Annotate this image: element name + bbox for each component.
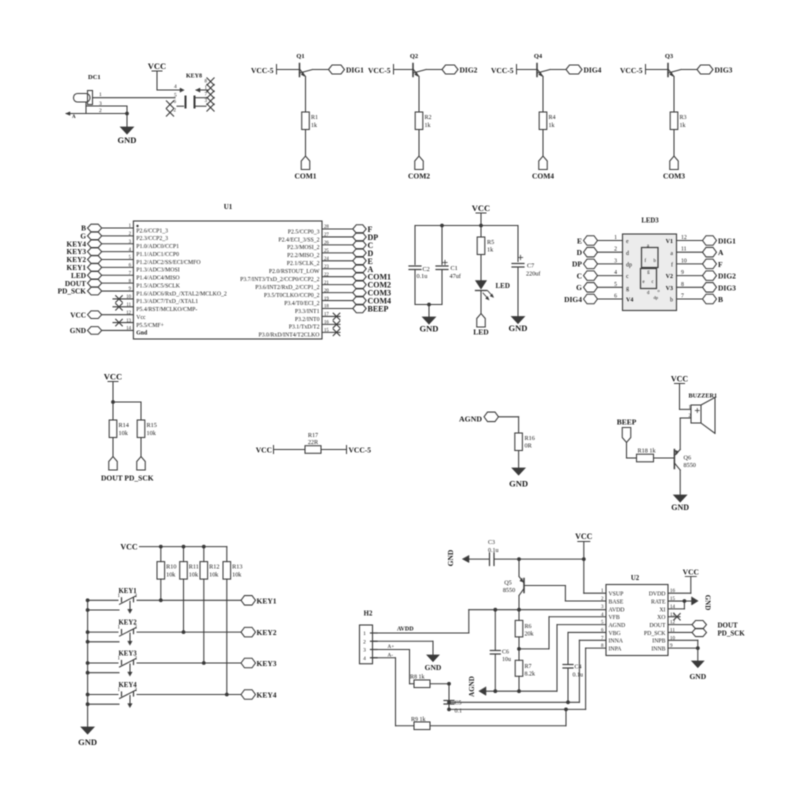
svg-text:P3.0/RxD/INT4/T2CLKO: P3.0/RxD/INT4/T2CLKO	[258, 333, 319, 339]
svg-text:P2.2/MISO_2: P2.2/MISO_2	[287, 253, 319, 259]
svg-text:0.1u: 0.1u	[417, 273, 428, 280]
svg-text:GND: GND	[446, 549, 455, 566]
svg-text:c: c	[652, 280, 654, 285]
svg-text:GND: GND	[509, 479, 528, 489]
svg-text:P2.1/SCLK_2: P2.1/SCLK_2	[287, 261, 320, 267]
svg-text:C1: C1	[451, 265, 458, 272]
svg-text:R9 1k: R9 1k	[411, 717, 426, 723]
svg-text:P3.5/T0CLKO/CCP0_2: P3.5/T0CLKO/CCP0_2	[264, 293, 320, 299]
svg-text:GND: GND	[420, 324, 439, 334]
svg-text:E: E	[577, 236, 582, 245]
svg-text:9: 9	[681, 270, 684, 276]
svg-text:P3.7/INT3/TxD_2/CCP0/CCP2_2: P3.7/INT3/TxD_2/CCP0/CCP2_2	[240, 277, 320, 283]
svg-text:AGND: AGND	[468, 676, 476, 697]
svg-text:7: 7	[205, 93, 208, 98]
svg-text:C: C	[577, 271, 582, 280]
svg-text:10k: 10k	[189, 572, 199, 579]
svg-text:R7: R7	[525, 664, 532, 670]
svg-text:P1.3/ADC3/MOSI: P1.3/ADC3/MOSI	[136, 268, 179, 274]
svg-text:3: 3	[363, 648, 366, 654]
svg-text:DC1: DC1	[88, 74, 101, 81]
svg-text:Q3: Q3	[665, 53, 674, 60]
svg-text:P2.6/CCP1_3: P2.6/CCP1_3	[136, 228, 168, 234]
svg-text:4: 4	[363, 656, 366, 662]
svg-text:B: B	[718, 295, 723, 304]
svg-text:C4: C4	[575, 665, 582, 671]
svg-text:4: 4	[614, 270, 617, 276]
svg-text:P1.3/ADC7/TxD_/XTAL1: P1.3/ADC7/TxD_/XTAL1	[136, 299, 198, 305]
svg-text:Vcc: Vcc	[136, 315, 146, 321]
svg-text:P1.4/ADC4/MISO: P1.4/ADC4/MISO	[136, 276, 179, 282]
svg-text:8550: 8550	[503, 587, 515, 594]
svg-text:GND: GND	[509, 323, 528, 333]
svg-text:INNB: INNB	[651, 647, 665, 653]
svg-text:C2: C2	[423, 266, 430, 273]
svg-text:LED: LED	[496, 282, 510, 290]
svg-text:5: 5	[614, 282, 617, 288]
svg-text:VCC: VCC	[256, 446, 272, 455]
svg-text:P1.5/ADC5/SCLK: P1.5/ADC5/SCLK	[136, 283, 180, 289]
svg-text:10k: 10k	[232, 572, 242, 579]
svg-text:U2: U2	[631, 575, 640, 582]
svg-text:D: D	[577, 248, 583, 257]
svg-text:VSUP: VSUP	[609, 592, 624, 598]
svg-text:12: 12	[681, 235, 687, 241]
svg-text:AGND: AGND	[459, 415, 482, 424]
svg-text:VCC-5: VCC-5	[349, 446, 372, 455]
svg-text:DP: DP	[572, 260, 582, 269]
svg-text:e: e	[626, 239, 629, 245]
svg-text:Gnd: Gnd	[136, 331, 148, 337]
svg-text:RATE: RATE	[651, 599, 666, 605]
svg-text:VCC: VCC	[148, 61, 166, 71]
svg-text:R11: R11	[189, 564, 199, 571]
svg-text:P2.0/RSTOUT_LOW: P2.0/RSTOUT_LOW	[269, 269, 320, 275]
svg-text:V4: V4	[626, 298, 633, 304]
svg-text:VCC-5: VCC-5	[491, 66, 514, 75]
svg-text:8550: 8550	[684, 462, 696, 469]
svg-text:1k: 1k	[311, 123, 317, 129]
svg-text:Q1: Q1	[296, 53, 304, 60]
svg-text:AGND: AGND	[609, 623, 626, 629]
svg-text:Q6: Q6	[684, 455, 692, 462]
svg-text:COM1: COM1	[294, 172, 316, 181]
svg-text:47uf: 47uf	[450, 273, 462, 280]
svg-text:DIG4: DIG4	[564, 295, 582, 304]
svg-text:dp: dp	[654, 295, 659, 300]
svg-text:KEY3: KEY3	[257, 659, 277, 668]
svg-text:10k: 10k	[166, 572, 176, 579]
svg-text:INPA: INPA	[609, 647, 623, 653]
svg-text:1k: 1k	[680, 123, 686, 129]
svg-text:INPB: INPB	[652, 639, 665, 645]
svg-text:VCC-5: VCC-5	[620, 66, 643, 75]
svg-text:220uf: 220uf	[526, 271, 541, 278]
svg-text:VCC-5: VCC-5	[368, 66, 391, 75]
svg-text:VCC: VCC	[683, 568, 699, 577]
svg-text:R2: R2	[425, 115, 432, 121]
svg-text:H2: H2	[364, 611, 373, 618]
svg-text:8.2k: 8.2k	[525, 672, 536, 678]
svg-text:VCC: VCC	[70, 310, 86, 319]
svg-text:V2: V2	[666, 274, 673, 280]
svg-text:1k: 1k	[549, 123, 555, 129]
svg-text:10: 10	[681, 258, 687, 264]
svg-text:P1.6/ADC6/RxD_/XTAL2/MCLKO_2: P1.6/ADC6/RxD_/XTAL2/MCLKO_2	[136, 291, 227, 297]
svg-text:P5.5/CMF+: P5.5/CMF+	[136, 323, 164, 329]
svg-text:R13: R13	[232, 564, 242, 571]
svg-text:GND: GND	[118, 135, 137, 145]
svg-text:LED3: LED3	[641, 218, 659, 225]
svg-text:DOUT: DOUT	[649, 623, 666, 629]
svg-text:AVDD: AVDD	[609, 607, 625, 613]
svg-text:P2.3/CCP2_3: P2.3/CCP2_3	[136, 236, 168, 242]
svg-text:GND: GND	[704, 595, 712, 611]
svg-text:BEEP: BEEP	[368, 305, 389, 314]
svg-text:XI: XI	[659, 607, 665, 613]
svg-text:dp: dp	[626, 263, 632, 269]
svg-text:P3.6/INT2/RxD_2/CCP1_2: P3.6/INT2/RxD_2/CCP1_2	[255, 285, 319, 291]
svg-text:P3.3/INT1: P3.3/INT1	[295, 309, 320, 315]
svg-text:VCC-5: VCC-5	[251, 66, 274, 75]
svg-text:10k: 10k	[209, 572, 219, 579]
svg-text:DIG2: DIG2	[718, 272, 736, 281]
svg-text:VCC: VCC	[104, 372, 122, 382]
svg-text:0.1u: 0.1u	[573, 673, 584, 679]
svg-text:7: 7	[681, 294, 684, 300]
svg-text:GND: GND	[78, 737, 97, 747]
svg-text:DIG3: DIG3	[718, 283, 736, 292]
svg-text:BASE: BASE	[609, 599, 624, 605]
svg-text:AVDD: AVDD	[397, 627, 414, 633]
svg-text:PD_SCK: PD_SCK	[58, 287, 87, 296]
svg-text:R3: R3	[680, 115, 687, 121]
svg-text:P2.3/MOSI_2: P2.3/MOSI_2	[287, 245, 319, 251]
svg-text:INNA: INNA	[609, 639, 624, 645]
svg-text:3: 3	[601, 605, 604, 610]
svg-text:R10: R10	[166, 564, 176, 571]
svg-text:3: 3	[614, 258, 617, 264]
svg-text:VCC: VCC	[120, 543, 138, 552]
svg-text:U1: U1	[224, 203, 233, 211]
svg-text:C5: C5	[455, 701, 462, 707]
svg-text:LED: LED	[473, 328, 489, 337]
svg-text:C6: C6	[502, 650, 509, 656]
svg-text:R16: R16	[525, 435, 535, 442]
svg-text:0.1u: 0.1u	[488, 548, 499, 554]
svg-text:DOUT: DOUT	[718, 622, 739, 630]
svg-text:R6: R6	[525, 624, 532, 630]
svg-text:e: e	[643, 280, 645, 285]
svg-text:KEY8: KEY8	[186, 74, 202, 80]
svg-text:GND: GND	[425, 663, 442, 672]
svg-text:DIG1: DIG1	[346, 66, 364, 75]
svg-text:A: A	[718, 248, 724, 257]
svg-text:1k: 1k	[487, 247, 494, 254]
svg-text:G: G	[576, 283, 582, 292]
svg-text:8: 8	[205, 80, 208, 85]
svg-text:C3: C3	[488, 540, 495, 546]
svg-text:GND: GND	[671, 503, 689, 512]
svg-text:KEY2: KEY2	[257, 628, 277, 637]
svg-text:VBG: VBG	[609, 631, 621, 637]
svg-text:DOUT PD_SCK: DOUT PD_SCK	[101, 474, 154, 483]
svg-text:2: 2	[363, 639, 366, 645]
svg-text:R17: R17	[308, 432, 318, 439]
svg-text:A+: A+	[388, 644, 395, 650]
svg-text:2: 2	[174, 109, 177, 114]
svg-text:KEY1: KEY1	[257, 596, 277, 605]
svg-text:a: a	[670, 251, 673, 257]
svg-text:PD_SCK: PD_SCK	[718, 629, 746, 637]
svg-text:BUZZER1: BUZZER1	[689, 393, 718, 400]
svg-text:R8 1k: R8 1k	[410, 675, 425, 681]
svg-text:P2.5/CCP0_3: P2.5/CCP0_3	[288, 229, 320, 235]
svg-text:P5.4/RST/MCLKO/CMP-: P5.4/RST/MCLKO/CMP-	[136, 307, 197, 313]
svg-text:XO: XO	[657, 615, 665, 621]
svg-text:COM2: COM2	[408, 172, 430, 181]
svg-text:10k: 10k	[147, 430, 157, 437]
svg-text:PD_SCK: PD_SCK	[644, 631, 666, 637]
svg-text:COM3: COM3	[663, 172, 685, 181]
svg-text:DIG1: DIG1	[718, 237, 736, 246]
svg-text:6: 6	[174, 100, 177, 105]
svg-text:DIG3: DIG3	[715, 66, 733, 75]
svg-text:VCC: VCC	[472, 203, 490, 213]
svg-text:g: g	[626, 286, 629, 292]
svg-text:6: 6	[614, 294, 617, 300]
svg-text:1: 1	[614, 235, 617, 241]
svg-text:2: 2	[614, 247, 617, 253]
svg-text:5: 5	[174, 92, 177, 98]
svg-text:A-: A-	[388, 652, 394, 658]
svg-text:COM4: COM4	[532, 172, 554, 181]
svg-text:VCC: VCC	[671, 375, 689, 384]
svg-text:VFB: VFB	[609, 615, 620, 621]
svg-text:b: b	[670, 298, 673, 304]
svg-text:DIG2: DIG2	[460, 66, 478, 75]
svg-text:V3: V3	[666, 286, 673, 292]
svg-text:R14: R14	[119, 422, 129, 429]
svg-text:P2.4/ECI_3/SS_2: P2.4/ECI_3/SS_2	[278, 237, 319, 243]
svg-text:1: 1	[363, 631, 366, 637]
svg-text:A: A	[72, 115, 76, 120]
svg-text:GND: GND	[689, 672, 706, 681]
svg-text:11: 11	[681, 247, 687, 253]
svg-text:P3.2/INT0: P3.2/INT0	[295, 317, 320, 323]
svg-text:V1: V1	[666, 239, 673, 245]
svg-text:C7: C7	[527, 263, 534, 270]
svg-text:P1.0/ADC0/CCP1: P1.0/ADC0/CCP1	[136, 244, 179, 250]
svg-text:P1.2/ADC2/SS/ECI/CMFO: P1.2/ADC2/SS/ECI/CMFO	[136, 260, 200, 266]
svg-text:R15: R15	[147, 422, 157, 429]
svg-text:KEY4: KEY4	[257, 691, 277, 700]
svg-text:0R: 0R	[525, 443, 533, 450]
svg-text:1k: 1k	[425, 123, 431, 129]
svg-text:R4: R4	[549, 115, 556, 121]
svg-text:DVDD: DVDD	[649, 592, 666, 598]
svg-text:Q5: Q5	[504, 580, 512, 587]
svg-text:R5: R5	[487, 239, 494, 246]
svg-text:BEEP: BEEP	[617, 418, 637, 427]
svg-text:GND: GND	[70, 326, 86, 335]
svg-text:DIG4: DIG4	[584, 66, 602, 75]
svg-text:d: d	[626, 251, 629, 257]
svg-text:P1.1/ADC1/CCP0: P1.1/ADC1/CCP0	[136, 252, 179, 258]
svg-text:R1: R1	[311, 115, 318, 121]
svg-text:20k: 20k	[525, 632, 534, 638]
svg-text:R18 1k: R18 1k	[638, 448, 657, 455]
svg-text:Q2: Q2	[410, 53, 418, 60]
svg-text:P3.4/T0/ECI_2: P3.4/T0/ECI_2	[284, 301, 319, 307]
svg-text:P3.1/TxD/T2: P3.1/TxD/T2	[289, 325, 320, 331]
svg-text:8: 8	[681, 282, 684, 288]
svg-text:VCC: VCC	[575, 532, 593, 541]
svg-text:22R: 22R	[308, 439, 319, 446]
svg-text:4: 4	[174, 84, 177, 90]
svg-text:10k: 10k	[119, 430, 129, 437]
svg-text:F: F	[718, 260, 723, 269]
svg-text:f: f	[671, 262, 673, 269]
svg-text:1: 1	[99, 92, 102, 98]
svg-text:3: 3	[205, 99, 208, 104]
svg-text:10u: 10u	[502, 657, 511, 663]
svg-text:R12: R12	[209, 564, 219, 571]
svg-text:c: c	[626, 274, 629, 280]
svg-text:Q4: Q4	[534, 53, 543, 60]
